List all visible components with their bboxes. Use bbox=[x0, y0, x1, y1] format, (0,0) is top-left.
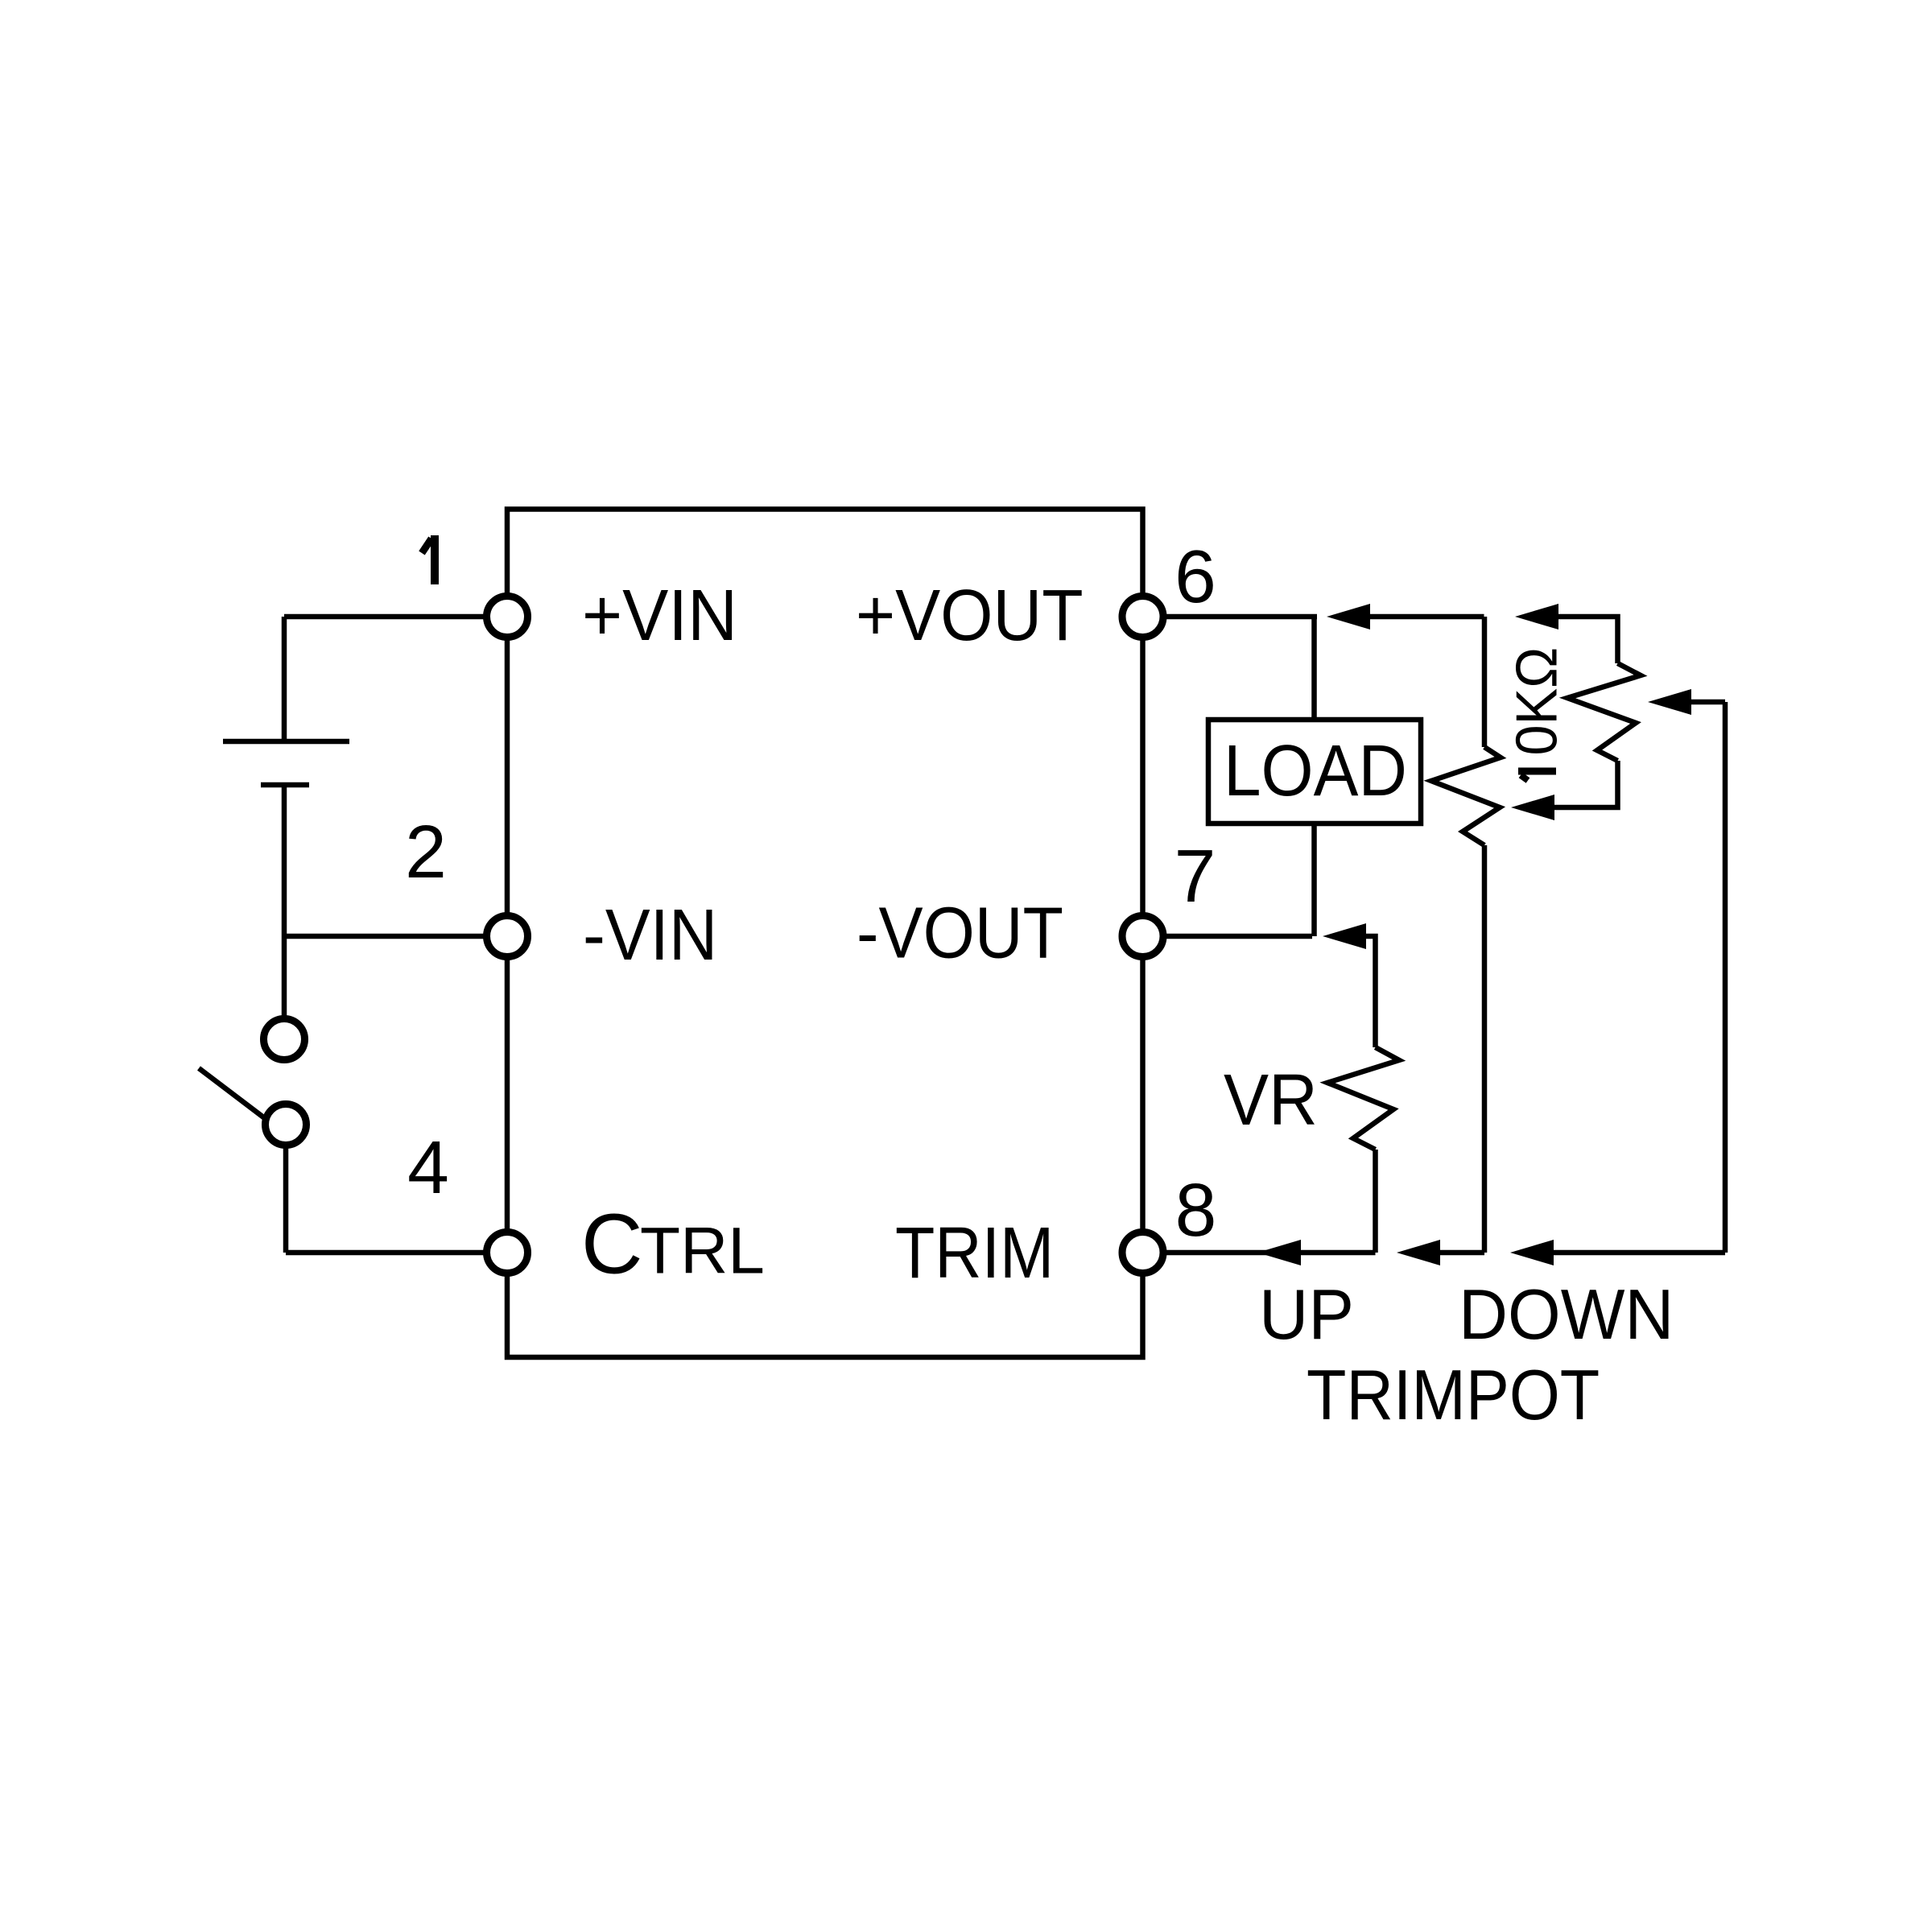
arrow into pin7 junction bbox=[1323, 923, 1366, 949]
switch S1 top contact bbox=[264, 1019, 305, 1060]
pin 4 bbox=[487, 1232, 528, 1274]
svg-text:DOWN: DOWN bbox=[1459, 1275, 1674, 1354]
pin 6 bbox=[1122, 597, 1163, 638]
battery BT1 long plate bbox=[223, 739, 349, 745]
wire battery- to switch bbox=[282, 785, 287, 1019]
svg-text:+VOUT: +VOUT bbox=[856, 575, 1084, 655]
svg-text:UP: UP bbox=[1259, 1276, 1354, 1355]
svg-text:2: 2 bbox=[405, 810, 447, 894]
svg-text:+VIN: +VIN bbox=[582, 574, 737, 655]
arrow trimpot bottom bbox=[1511, 795, 1554, 820]
svg-text:6: 6 bbox=[1174, 535, 1216, 618]
resistor VR zigzag bbox=[1327, 1047, 1399, 1150]
wire pin8 to VR corner bbox=[1143, 1250, 1376, 1256]
svg-text:TRL: TRL bbox=[640, 1215, 765, 1288]
wire pin7 to junction bbox=[1143, 934, 1313, 939]
battery BT1 short plate bbox=[261, 782, 309, 788]
svg-text:7: 7 bbox=[1174, 834, 1216, 918]
wire trimpot bottom stub bbox=[1554, 761, 1618, 807]
wire LOAD top lead bbox=[1311, 617, 1317, 720]
module box U1 bbox=[507, 510, 1143, 1358]
wire battery+ to pin1 bbox=[284, 614, 507, 620]
wire pin6 to LOAD junction bbox=[1143, 614, 1318, 620]
wire arrow tail to feedback corner bbox=[1370, 614, 1484, 620]
arrow DOWN bbox=[1510, 1240, 1554, 1265]
switch S1 blade bbox=[199, 1068, 266, 1119]
wire VR top stub bbox=[1366, 936, 1376, 1047]
wire down vertical bbox=[1723, 702, 1728, 1253]
resistor feedback zigzag bbox=[1431, 747, 1501, 845]
resistor trimpot 10K zigzag bbox=[1567, 663, 1641, 761]
svg-text:-VOUT: -VOUT bbox=[857, 893, 1063, 973]
pin 2 bbox=[487, 916, 528, 957]
arrow trimpot wiper bbox=[1648, 689, 1691, 715]
wire battery top lead bbox=[282, 617, 287, 741]
arrow on pin8 wire bbox=[1257, 1240, 1301, 1265]
svg-text:TRIMPOT: TRIMPOT bbox=[1307, 1355, 1600, 1435]
wire LOAD bottom lead bbox=[1311, 824, 1317, 936]
svg-text:VR: VR bbox=[1224, 1059, 1318, 1140]
svg-text:8: 8 bbox=[1175, 1168, 1217, 1252]
svg-text:0KΩ: 0KΩ bbox=[1504, 647, 1569, 756]
wire feedback vertical upper bbox=[1482, 617, 1488, 747]
svg-text:-VIN: -VIN bbox=[583, 894, 717, 975]
arrow into pin6 junction bbox=[1327, 604, 1370, 630]
pin 8 bbox=[1122, 1232, 1163, 1274]
wire UP arrow stub bbox=[1440, 1250, 1484, 1256]
wire VR bottom lead bbox=[1373, 1150, 1378, 1253]
pin 1 bbox=[487, 597, 528, 638]
arrow trimpot top bbox=[1515, 604, 1558, 630]
svg-text:4: 4 bbox=[407, 1125, 449, 1209]
wire wiper stub bbox=[1691, 700, 1725, 705]
wire switch to corner node bbox=[283, 1145, 289, 1253]
svg-text:TRIM: TRIM bbox=[895, 1213, 1054, 1294]
LOAD box bbox=[1208, 720, 1421, 824]
wire trimpot top stub bbox=[1558, 617, 1618, 663]
svg-text:C: C bbox=[581, 1197, 643, 1292]
pin 1 number (drawn) bbox=[422, 535, 435, 584]
wire feedback vertical lower bbox=[1482, 845, 1488, 1253]
switch S1 bottom contact bbox=[266, 1104, 307, 1146]
wire battery- to pin2 bbox=[284, 934, 507, 939]
svg-text:LOAD: LOAD bbox=[1224, 730, 1407, 811]
pin 7 bbox=[1122, 916, 1163, 957]
wire corner to pin4 bbox=[286, 1250, 507, 1256]
arrow UP bbox=[1397, 1240, 1440, 1265]
wire down bottom stub bbox=[1554, 1250, 1725, 1256]
